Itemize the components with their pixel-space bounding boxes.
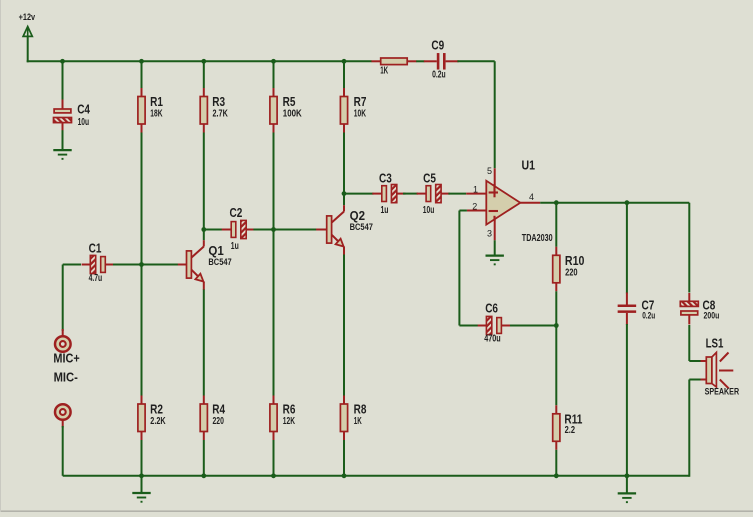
capacitor C5 — [417, 185, 450, 203]
capacitor C6 — [478, 316, 511, 334]
label C6 — [485, 300, 498, 315]
label R5 — [283, 94, 296, 109]
resistor 1K horizontal — [371, 58, 416, 65]
wire pin2 lead — [467, 210, 486, 212]
svg-text:R3: R3 — [212, 94, 225, 109]
svg-text:Q1: Q1 — [208, 243, 223, 258]
label U1 — [522, 158, 536, 173]
power +12v arrow — [23, 27, 32, 37]
label C7 value 0.2u — [642, 311, 655, 321]
svg-text:BC547: BC547 — [208, 257, 231, 267]
svg-text:C2: C2 — [230, 205, 243, 220]
svg-text:4: 4 — [529, 192, 534, 202]
wire R2 bottom — [141, 440, 143, 476]
svg-text:C1: C1 — [89, 240, 102, 255]
op-amp U1 body — [486, 181, 520, 225]
wire R6 bottom — [273, 440, 275, 476]
label C9 value 0.2u — [432, 70, 446, 81]
svg-text:R7: R7 — [354, 94, 367, 109]
svg-text:R5: R5 — [283, 94, 296, 109]
svg-text:+12v: +12v — [19, 12, 36, 23]
wire C8 to speaker corner — [688, 325, 690, 361]
svg-text:2.7K: 2.7K — [213, 109, 229, 120]
wire C6 to node — [510, 325, 556, 327]
resistor R11 — [553, 405, 560, 450]
node C2-R5-R6-Q2b — [271, 227, 276, 232]
label 1K value — [380, 66, 388, 77]
label C5 — [423, 170, 436, 185]
wire speaker bottom terminal — [689, 379, 706, 381]
label C2 value 1u — [231, 241, 239, 252]
transistor Q2 — [316, 205, 344, 255]
svg-text:R6: R6 — [283, 401, 296, 416]
resistor R4 — [200, 396, 207, 441]
wire power vertical — [27, 36, 29, 62]
ground bottom left — [132, 493, 150, 503]
wire C4 top — [62, 61, 64, 100]
wire R10 top — [555, 203, 557, 247]
wire ground stub right — [626, 476, 628, 494]
label MIC+ — [53, 351, 80, 366]
svg-text:1u: 1u — [231, 241, 239, 252]
label R1 — [150, 94, 163, 109]
svg-text:TDA2030: TDA2030 — [522, 233, 553, 244]
label LS1 — [706, 336, 724, 351]
wire mic corner to C1 — [63, 264, 81, 266]
svg-text:12K: 12K — [283, 416, 296, 427]
label C6 value 470u — [484, 333, 501, 344]
wire C2 to node — [253, 229, 273, 231]
node rail-R1 — [139, 59, 144, 64]
wire C7 bottom — [626, 324, 628, 476]
wire C1 to node — [113, 264, 142, 266]
wire bottom rail — [63, 475, 690, 477]
label C5 value 10u — [423, 205, 435, 216]
wire speaker top terminal — [689, 360, 706, 362]
node rail-R3 — [201, 59, 206, 64]
label R4 — [212, 401, 225, 416]
label pin 4 — [529, 192, 534, 202]
svg-text:MIC+: MIC+ — [53, 351, 80, 366]
svg-text:R4: R4 — [212, 401, 225, 416]
wire pin3 lead — [494, 220, 496, 241]
wire C3 to C5 — [403, 193, 418, 195]
wire output row — [540, 202, 689, 204]
connector MIC- — [55, 404, 71, 420]
svg-text:1: 1 — [473, 185, 478, 195]
label R8 value 1K — [354, 416, 362, 427]
wire Q2 emitter to R8 — [343, 255, 345, 396]
wire pin4 lead — [520, 202, 540, 204]
svg-text:1K: 1K — [380, 66, 388, 77]
label R11 — [564, 411, 582, 426]
wire R1 to C1 node — [141, 133, 143, 265]
svg-text:BC547: BC547 — [350, 222, 373, 232]
label pin 5 — [487, 166, 492, 176]
wire R10 bottom — [555, 291, 557, 325]
label +12v — [19, 12, 36, 23]
svg-text:220: 220 — [565, 267, 578, 278]
label C4 value 10u — [78, 117, 90, 128]
label R11 value 2.2 — [565, 425, 576, 436]
wire C4 bottom — [62, 130, 64, 149]
wire R11 top — [555, 326, 557, 406]
svg-text:220: 220 — [213, 416, 225, 427]
svg-text:2.2: 2.2 — [565, 425, 576, 436]
wire ground stub left — [141, 476, 143, 493]
node C1-R1-R2-Q1 — [139, 262, 144, 267]
node bot-R8 — [342, 473, 347, 478]
node bot-R4 — [201, 473, 206, 478]
svg-text:200u: 200u — [704, 311, 720, 321]
svg-text:4.7u: 4.7u — [89, 273, 103, 284]
wire C7 top — [626, 203, 628, 294]
wire R1 top — [141, 61, 143, 88]
wire R7 to node — [343, 133, 345, 194]
svg-text:R10: R10 — [565, 253, 585, 268]
resistor R7 — [340, 88, 347, 133]
node rail-C4 — [60, 59, 65, 64]
wire C8 top — [688, 203, 690, 293]
svg-text:2.2K: 2.2K — [150, 416, 166, 427]
wire R4 bottom — [203, 440, 205, 476]
label R6 value 12K — [283, 416, 296, 427]
svg-text:5: 5 — [487, 166, 492, 176]
wire MIC+ lead — [62, 329, 64, 337]
svg-text:R1: R1 — [150, 94, 163, 109]
wire R7 top — [343, 61, 345, 88]
resistor R2 — [138, 396, 145, 441]
resistor R8 — [340, 396, 347, 441]
label Q1 value BC547 — [208, 257, 231, 267]
wire node to C3 — [344, 193, 374, 195]
label pin 2 — [472, 202, 477, 212]
wire pin2 vertical — [458, 211, 460, 326]
window border bottom — [0, 510, 753, 512]
svg-text:MIC-: MIC- — [54, 369, 78, 384]
wire Q1 emitter to R4 — [203, 290, 205, 396]
node bot-C7 — [625, 473, 630, 478]
label pin 1 — [473, 185, 478, 195]
wire pin5 vertical — [494, 61, 496, 168]
wire C5 to pin1 — [448, 193, 466, 195]
svg-text:0.2u: 0.2u — [432, 70, 446, 81]
node bot-R2 — [139, 473, 144, 478]
label Q1 — [208, 243, 223, 258]
wire MIC- down — [62, 426, 64, 476]
label R4 value 220 — [213, 416, 225, 427]
wire R3 top — [203, 61, 205, 88]
svg-text:R2: R2 — [150, 401, 163, 416]
label R7 value 10K — [354, 109, 367, 120]
node C6-R10-R11 — [554, 323, 559, 328]
label R2 — [150, 401, 163, 416]
label Q2 value BC547 — [350, 222, 373, 232]
wire node to Q2 base — [274, 229, 319, 231]
svg-text:U1: U1 — [522, 158, 536, 173]
resistor R6 — [270, 396, 277, 441]
svg-text:C3: C3 — [379, 170, 392, 185]
svg-text:10u: 10u — [423, 205, 435, 216]
label R8 — [354, 401, 367, 416]
ground under pin3 — [486, 256, 504, 266]
wire R6 top — [273, 230, 275, 396]
wire pin2 horizontal — [459, 210, 467, 212]
wire C9 to corner — [457, 60, 494, 62]
label R2 value 2.2K — [150, 416, 166, 427]
wire Q2 collector — [343, 194, 345, 206]
label R3 value 2.7K — [213, 109, 229, 120]
capacitor C2 — [222, 220, 255, 238]
label C9 — [431, 37, 444, 52]
label C2 — [230, 205, 243, 220]
svg-text:100K: 100K — [283, 109, 303, 120]
svg-text:10u: 10u — [78, 117, 90, 128]
label C7 — [642, 297, 655, 312]
wire MIC- lead — [62, 420, 64, 428]
resistor R1 — [138, 88, 145, 133]
window border left — [0, 0, 1, 512]
speaker LS1 — [706, 352, 733, 388]
wire R8 bottom — [343, 440, 345, 476]
wire pin1 lead — [466, 193, 486, 195]
svg-text:1u: 1u — [381, 205, 389, 216]
label C8 — [703, 297, 716, 312]
svg-text:470u: 470u — [484, 333, 501, 344]
node out-C7 — [625, 200, 630, 205]
label R6 — [283, 401, 296, 416]
ground bottom right — [618, 493, 636, 503]
svg-text:C4: C4 — [77, 102, 90, 117]
svg-text:18K: 18K — [150, 109, 163, 120]
capacitor C1 — [82, 255, 115, 273]
svg-text:10K: 10K — [354, 109, 367, 120]
wire R11 bottom — [555, 450, 557, 476]
label MIC- — [54, 369, 78, 384]
capacitor C3 — [372, 185, 405, 203]
svg-text:0.2u: 0.2u — [642, 311, 655, 321]
transistor Q1 — [176, 240, 204, 290]
label R7 — [354, 94, 367, 109]
node bot-R6 — [271, 473, 276, 478]
label C1 — [89, 240, 102, 255]
wire rail to C9 — [416, 60, 424, 62]
wire C6 left — [459, 325, 478, 327]
svg-text:C5: C5 — [423, 170, 436, 185]
label R10 value 220 — [565, 267, 578, 278]
svg-text:2: 2 — [472, 202, 477, 212]
svg-text:C6: C6 — [485, 300, 498, 315]
svg-text:C9: C9 — [431, 37, 444, 52]
node rail-R5 — [271, 59, 276, 64]
svg-text:3: 3 — [487, 228, 492, 238]
wire speaker down — [688, 380, 690, 477]
svg-text:1K: 1K — [354, 416, 362, 427]
svg-text:R11: R11 — [564, 411, 582, 426]
wire R2 top — [141, 265, 143, 396]
wire top rail — [27, 60, 372, 62]
label R1 value 18K — [150, 109, 163, 120]
label R10 — [565, 253, 585, 268]
svg-text:LS1: LS1 — [706, 336, 724, 351]
label C1 value 4.7u — [89, 273, 103, 284]
connector MIC+ — [55, 336, 71, 352]
wire R3 to C2 node — [203, 133, 205, 230]
label R5 value 100K — [283, 109, 303, 120]
capacitor C4 — [54, 100, 72, 131]
wire pin5 lead — [494, 168, 496, 187]
label pin 3 — [487, 228, 492, 238]
node C3-R7-Q2c — [342, 191, 347, 196]
wire MIC+ up — [62, 265, 64, 332]
wire pin3 down — [494, 240, 496, 254]
label C4 — [77, 102, 90, 117]
label LS1 value SPEAKER — [705, 387, 740, 397]
wire Q1 collector — [203, 230, 205, 241]
svg-text:R8: R8 — [354, 401, 367, 416]
wire node to C2 — [204, 229, 223, 231]
wire R5 top — [273, 61, 275, 88]
wire R5 to node — [273, 133, 275, 230]
resistor R3 — [200, 88, 207, 133]
capacitor C9 — [424, 53, 459, 70]
svg-text:SPEAKER: SPEAKER — [705, 387, 740, 397]
node bot-R11 — [554, 473, 559, 478]
node C2-R3-Q1c — [201, 227, 206, 232]
node rail-R7 — [342, 59, 347, 64]
label R3 — [212, 94, 225, 109]
resistor R10 — [553, 247, 560, 291]
label U1 value TDA2030 — [522, 233, 553, 244]
capacitor C8 — [680, 293, 698, 324]
capacitor C7 — [618, 293, 637, 325]
ground under C4 — [53, 150, 71, 160]
label C3 value 1u — [381, 205, 389, 216]
resistor R5 — [270, 88, 277, 133]
node out-R10 — [554, 200, 559, 205]
label C3 — [379, 170, 392, 185]
wire node to Q1 base — [142, 264, 178, 266]
label C8 value 200u — [704, 311, 720, 321]
label Q2 — [350, 208, 365, 223]
